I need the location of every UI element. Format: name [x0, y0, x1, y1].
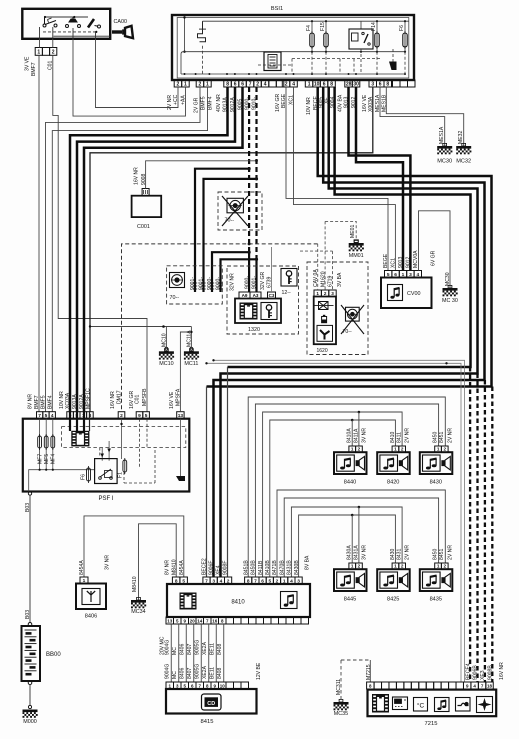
wire 9001 dashed BSI1 segment: [255, 87, 257, 259]
svg-text:1: 1: [37, 50, 40, 56]
wire CA00 pin2 stub: [52, 39, 54, 48]
svg-text:MC34: MC34: [131, 609, 145, 615]
wire +CC from CA00 to BSI1: [96, 39, 179, 108]
PSF1 inner dashed box: [62, 427, 186, 448]
CA00 contact S1: [43, 17, 57, 27]
wire 9000 dashed BSI1 through connector 70: [248, 87, 250, 252]
svg-text:1: 1: [308, 81, 311, 87]
wire 8450B loop: [255, 404, 438, 577]
svg-text:9001-: 9001-: [190, 277, 196, 290]
wires CAV M1620 6719 dashed into 1620: [317, 244, 319, 290]
svg-text:MF5: MF5: [44, 454, 50, 464]
svg-text:8V BA: 8V BA: [305, 555, 311, 570]
svg-text:8454A: 8454A: [179, 560, 185, 575]
svg-text:8440: 8440: [344, 480, 356, 486]
svg-text:16V GR: 16V GR: [275, 94, 281, 112]
svg-text:1: 1: [394, 564, 397, 569]
svg-text:3: 3: [331, 291, 334, 296]
svg-text:MF4: MF4: [51, 454, 57, 464]
wire 8430A branch: [351, 515, 353, 563]
PSF1 pin group 9 5 1 8: [67, 412, 93, 419]
PSF1 relay feed stubs: [102, 441, 109, 461]
svg-text:8406: 8406: [179, 668, 185, 679]
svg-text:8410: 8410: [390, 432, 396, 443]
svg-text:1: 1: [437, 447, 440, 452]
battery BB00: [28, 623, 32, 627]
ground MC35 and dashed link: [340, 660, 342, 702]
svg-text:1: 1: [351, 564, 354, 569]
1320 key icon box: [261, 303, 277, 320]
svg-text:7215: 7215: [425, 721, 438, 727]
ground MC32 top: [456, 143, 471, 154]
svg-text:5: 5: [145, 413, 148, 419]
wire MES1A to ground MC30: [380, 87, 445, 146]
svg-text:16: 16: [212, 618, 218, 623]
8410 note icon: [281, 592, 298, 609]
CA00 contact S3: [88, 19, 101, 28]
fuse F6: [404, 21, 406, 52]
7215 pin row: [367, 682, 494, 689]
svg-text:4: 4: [51, 413, 54, 419]
svg-text:2: 2: [285, 81, 288, 87]
svg-text:MF7: MF7: [38, 454, 44, 464]
PSF1 MPSFA wire and wedge: [179, 419, 181, 476]
PSF1 fuse F6: [87, 466, 91, 483]
svg-text:8420: 8420: [387, 480, 399, 486]
svg-text:6: 6: [241, 81, 244, 87]
svg-text:9012: 9012: [406, 257, 412, 268]
wire 9004 loop right side: [228, 87, 471, 367]
svg-text:3: 3: [371, 81, 374, 87]
svg-text:BB00: BB00: [46, 652, 61, 658]
wire 9000 solid to 1320 pin: [248, 252, 250, 292]
wire thin branch to 7215 a: [207, 363, 462, 682]
BSI1 inner border: [177, 18, 409, 79]
wire 9008 C001 to bundle: [146, 161, 257, 189]
svg-text:6: 6: [234, 81, 237, 87]
component 1320 dashed outline: [227, 266, 299, 334]
svg-text:BMF4: BMF4: [208, 96, 214, 110]
wire 6739 into 1320 C3: [271, 247, 273, 292]
wire 8411B loop: [263, 412, 403, 577]
svg-text:8410A: 8410A: [347, 428, 353, 443]
7215 compass star icon: [477, 697, 493, 713]
wire BECE loop right side: [207, 87, 492, 387]
svg-text:9012A: 9012A: [79, 394, 85, 409]
svg-text:ME01: ME01: [350, 225, 356, 238]
connector 70 wire end ticks: [193, 283, 223, 289]
svg-text:8430: 8430: [430, 480, 442, 486]
svg-text:8411: 8411: [397, 432, 403, 443]
speaker 8430 pins: [435, 446, 448, 452]
svg-text:1: 1: [184, 81, 187, 87]
svg-text:BSI1: BSI1: [271, 6, 283, 12]
CA00 internal supply bus: [44, 16, 88, 18]
wire branch 9001 upper to connector 70: [195, 169, 249, 292]
svg-text:BMF5: BMF5: [41, 395, 47, 409]
svg-text:1: 1: [394, 447, 397, 452]
svg-text:2: 2: [401, 564, 404, 569]
svg-text:8407: 8407: [187, 644, 193, 655]
svg-text:3V NR: 3V NR: [362, 428, 368, 443]
wire BMF4 BSI1 to PSF1: [52, 87, 207, 412]
svg-text:M7215: M7215: [366, 664, 372, 680]
PSF1 pin group 9 5: [136, 412, 149, 419]
svg-text:9006B: 9006B: [473, 665, 479, 680]
wire 8431A branch: [358, 507, 360, 563]
speaker 8430 box: [420, 452, 453, 474]
wire 9005 thick BSI1 to PSF1: [84, 87, 243, 412]
svg-text:M000: M000: [23, 719, 37, 725]
speaker 8435 box: [420, 569, 453, 591]
svg-text:CAV 0A: CAV 0A: [313, 269, 319, 287]
PSF1 pin group 7 5 4: [37, 412, 56, 419]
PSF1 connector symbol: [71, 431, 89, 447]
svg-text:F1: F1: [118, 472, 124, 478]
svg-text:1: 1: [437, 564, 440, 569]
svg-text:9000-: 9000-: [244, 276, 250, 289]
svg-text:MC11: MC11: [184, 361, 198, 367]
8410 bottom pin row: [166, 617, 309, 624]
relay inside BSI1: [360, 21, 362, 29]
7215 temperature icon: [414, 698, 428, 712]
wire XC1 to CV00: [294, 87, 396, 271]
svg-text:XC1: XC1: [391, 258, 397, 268]
svg-text:2V GR: 2V GR: [194, 97, 200, 113]
wires 8410 to 8415: [170, 624, 172, 682]
ground MC30 right: [443, 285, 458, 296]
svg-text:8: 8: [226, 81, 229, 87]
svg-text:M8410: M8410: [132, 576, 138, 592]
BSI1 pin row empty cells a: [269, 80, 284, 87]
svg-text:3V NR: 3V NR: [362, 545, 368, 560]
speaker 8435 pins: [435, 563, 448, 569]
8410 pin group 8 5: [172, 577, 187, 584]
svg-text:MC311: MC311: [336, 679, 342, 695]
fuse F14: [376, 21, 378, 52]
svg-text:2V NR: 2V NR: [405, 428, 411, 443]
svg-text:CV00: CV00: [407, 291, 421, 297]
svg-text:2: 2: [444, 564, 447, 569]
svg-text:CD: CD: [207, 701, 215, 707]
CA00 internal contact drops: [40, 27, 96, 39]
svg-text:9004G: 9004G: [164, 664, 170, 679]
svg-text:1: 1: [402, 272, 405, 278]
PSF1 relay: [95, 459, 118, 484]
wire +AA from CA00 to BSI1: [73, 39, 186, 116]
svg-text:BECE2: BECE2: [202, 558, 208, 575]
svg-text:PSF I: PSF I: [98, 496, 113, 502]
svg-text:16V NR: 16V NR: [499, 662, 505, 680]
component 1320 box: [235, 299, 281, 324]
PSF1 internal bus to relay: [29, 470, 95, 492]
svg-text:10V NR: 10V NR: [59, 391, 65, 409]
BSI1 pin row group 2V GR: [196, 80, 211, 87]
svg-text:8411B: 8411B: [258, 560, 264, 575]
BSI1 pin row group 10V NR: [305, 80, 335, 87]
svg-text:XE3: XE3: [480, 670, 486, 680]
fuse F4: [311, 21, 313, 52]
svg-text:B03: B03: [25, 610, 31, 619]
ignition switch CA00 box: [22, 9, 110, 39]
connector 70 crossed upper: [218, 192, 262, 230]
wire 9005 loop right side: [214, 87, 485, 577]
svg-text:70--: 70--: [225, 218, 235, 224]
svg-text:2: 2: [444, 447, 447, 452]
svg-text:XE4: XE4: [216, 565, 222, 575]
svg-text:8V NR: 8V NR: [28, 394, 34, 409]
svg-text:40V BA: 40V BA: [338, 94, 344, 112]
BSI1 circuit breaker zigzag: [198, 21, 206, 42]
wire 9008B dashed to 7215: [469, 367, 471, 682]
wire 8430 loop row2: [299, 515, 396, 577]
svg-text:C01: C01: [135, 394, 141, 404]
svg-text:9008: 9008: [141, 174, 147, 185]
wire 8431 loop row2: [291, 507, 402, 577]
svg-text:2V NR: 2V NR: [447, 545, 453, 560]
svg-text:9004G: 9004G: [164, 640, 170, 655]
fuse F15: [325, 21, 327, 52]
1320 chip icon: [240, 303, 258, 320]
svg-text:BMF7: BMF7: [31, 62, 37, 76]
svg-text:F15: F15: [320, 22, 326, 31]
svg-text:MES1A: MES1A: [439, 126, 445, 144]
svg-text:8450B: 8450B: [251, 560, 257, 575]
BSI1 internal ground wedge: [389, 62, 397, 71]
svg-text:6V GR: 6V GR: [431, 250, 437, 266]
svg-text:MPSF1C: MPSF1C: [85, 388, 91, 409]
svg-text:4: 4: [416, 272, 419, 278]
svg-text:12V BE: 12V BE: [256, 662, 262, 680]
CV00 pin row: [385, 271, 422, 278]
svg-text:M8410: M8410: [172, 559, 178, 575]
PSF1 fuse MF5: [45, 419, 47, 470]
svg-text:7: 7: [249, 81, 252, 87]
svg-text:8408: 8408: [217, 644, 223, 655]
svg-text:XC03A: XC03A: [65, 392, 71, 409]
svg-text:16V NR: 16V NR: [110, 391, 116, 409]
svg-text:8: 8: [386, 81, 389, 87]
PSF1 pin 2: [118, 412, 125, 419]
svg-text:XE2A: XE2A: [202, 665, 208, 679]
antenna 8406 box: [76, 584, 106, 610]
svg-text:BE11: BE11: [209, 643, 215, 655]
svg-text:7: 7: [38, 413, 41, 419]
svg-text:8425: 8425: [387, 597, 399, 603]
BSI1 internal dashed wiring: [258, 49, 405, 74]
svg-text:MC30: MC30: [437, 159, 452, 165]
svg-text:F6: F6: [399, 25, 405, 31]
PSF1 dashed internals: [100, 419, 155, 483]
svg-text:8470B: 8470B: [279, 560, 285, 575]
PSF1 fuse MF4: [52, 419, 54, 470]
svg-text:BMF7: BMF7: [34, 395, 40, 409]
svg-text:8: 8: [330, 81, 333, 87]
8410 chip icon: [180, 593, 197, 610]
wire BECE4 dashed to 7215: [491, 387, 493, 683]
7215 door mirror icon: [456, 698, 471, 712]
svg-text:6739: 6739: [267, 277, 273, 288]
svg-text:70--: 70--: [170, 295, 180, 301]
ground MC11: [184, 349, 199, 360]
wire branch 9000 upper to connector 70: [204, 179, 257, 292]
svg-text:MC32: MC32: [456, 159, 471, 165]
BSI1 pin row group 16V GR: [282, 80, 297, 87]
speaker 8425 box: [377, 569, 410, 591]
svg-text:M1620: M1620: [320, 271, 326, 287]
svg-text:2: 2: [358, 564, 361, 569]
svg-text:13: 13: [178, 413, 184, 419]
svg-text:C3: C3: [269, 293, 275, 298]
CA00 internal link to key: [54, 35, 111, 37]
svg-text:MC10: MC10: [159, 361, 173, 367]
svg-text:BEGE: BEGE: [383, 253, 389, 268]
svg-text:40V NR: 40V NR: [216, 94, 222, 112]
wire 8454A antenna to radio: [84, 516, 184, 577]
svg-text:5: 5: [45, 413, 48, 419]
svg-text:70--: 70--: [343, 329, 352, 335]
wire 9008F drop to radio: [227, 367, 229, 577]
svg-text:32V NR: 32V NR: [230, 273, 236, 291]
svg-text:28: 28: [346, 81, 352, 87]
BSI1 outer box: [172, 15, 414, 80]
ground MC30 top: [437, 143, 452, 154]
speaker 8440 pins: [349, 446, 362, 452]
1620 pin row 1 2 3: [314, 290, 336, 297]
svg-text:30: 30: [353, 81, 359, 87]
svg-text:C001: C001: [137, 224, 150, 230]
wire 9013A thick BSI1 to PSF1: [70, 87, 228, 412]
connector 70 crossed at 1620: [346, 307, 360, 321]
CD changer 8415 box: [166, 689, 257, 714]
ground M000: [23, 710, 38, 718]
svg-text:MC35: MC35: [334, 711, 348, 717]
svg-text:8430B: 8430B: [294, 560, 300, 575]
ground MC10: [159, 349, 174, 360]
svg-text:4: 4: [292, 81, 295, 87]
ground MM01 dashed feed: [325, 221, 356, 239]
svg-text:8407: 8407: [187, 668, 193, 679]
wire XE3 dashed to 7215: [476, 374, 478, 683]
wire battery to ground M000: [29, 685, 31, 706]
component CV00 box: [381, 278, 432, 309]
svg-text:DM17: DM17: [117, 390, 123, 404]
BSI1 internal feed drop: [184, 18, 186, 52]
1620 lamp icon: [315, 305, 334, 307]
svg-text:4: 4: [264, 81, 267, 87]
ground MM01: [349, 240, 364, 251]
BSI1 internal upper line: [203, 20, 409, 22]
svg-text:8445: 8445: [344, 597, 356, 603]
svg-text:10: 10: [314, 81, 320, 87]
svg-text:10: 10: [220, 683, 226, 688]
PSF1 thick pin stubs: [69, 412, 71, 431]
wire 8431B loop row2: [277, 490, 445, 577]
svg-text:9: 9: [138, 413, 141, 419]
wire X003A BSI1 to PSF1 pin8: [90, 87, 373, 412]
8410 pin group 8 7 6 5 2 1 4 3: [245, 577, 303, 584]
svg-text:9005G: 9005G: [194, 640, 200, 655]
svg-text:8V NR: 8V NR: [165, 560, 171, 575]
svg-text:8406: 8406: [179, 644, 185, 655]
svg-text:9001-: 9001-: [199, 277, 205, 290]
wire BEGE to CV00: [286, 87, 388, 271]
wire 8411A branch: [358, 412, 360, 446]
svg-text:9013: 9013: [398, 257, 404, 268]
svg-text:BMF4: BMF4: [48, 395, 54, 409]
wire 8410A branch: [351, 420, 353, 446]
svg-text:MPSFB: MPSFB: [142, 388, 148, 406]
svg-text:F6: F6: [81, 474, 87, 480]
speaker 8420 pins: [392, 446, 405, 452]
svg-text:14: 14: [197, 618, 203, 623]
svg-text:3: 3: [409, 272, 412, 278]
svg-text:2: 2: [120, 413, 123, 419]
component 1620 dashed outline: [307, 262, 368, 355]
svg-text:10V NR: 10V NR: [306, 97, 312, 115]
svg-text:8410B: 8410B: [265, 560, 271, 575]
key symbol 12 connector: [281, 269, 297, 287]
svg-text:2: 2: [256, 81, 259, 87]
svg-text:BMF5: BMF5: [201, 96, 207, 110]
svg-text:MC11A: MC11A: [187, 330, 193, 347]
svg-text:9000-: 9000-: [216, 277, 222, 290]
BSI1 diagnostic connector symbol: [264, 52, 281, 71]
CA00 connector pins 1 2: [35, 48, 57, 56]
svg-text:CA00: CA00: [114, 19, 128, 25]
svg-text:8450: 8450: [433, 549, 439, 560]
svg-text:MC: MC: [172, 671, 178, 679]
svg-text:9013A: 9013A: [72, 394, 78, 409]
PSF1 fuse MF7: [39, 419, 41, 470]
CD icon: [202, 694, 222, 710]
svg-text:6719: 6719: [328, 276, 334, 287]
wire MES1B to ground MC32: [386, 87, 463, 146]
svg-text:MM01: MM01: [349, 253, 364, 259]
svg-text:8411A: 8411A: [353, 428, 359, 443]
svg-text:1320: 1320: [248, 327, 260, 333]
svg-text:2: 2: [199, 81, 202, 87]
wire M8410 radio to ground MC34: [139, 524, 177, 600]
svg-text:8451: 8451: [439, 549, 445, 560]
BSI1 pin row empty cells b: [393, 80, 416, 87]
svg-text:8430: 8430: [390, 549, 396, 560]
wire thin branch to 7215 b: [214, 360, 465, 682]
1320 pin C3: [268, 292, 276, 299]
svg-text:F14: F14: [371, 22, 377, 31]
1620 battery icon: [322, 315, 327, 323]
wire BECE2 drop to radio: [206, 387, 208, 578]
svg-text:8451: 8451: [439, 432, 445, 443]
svg-text:MC: MC: [172, 647, 178, 655]
BSI1 pin row group 40V NR: [224, 80, 269, 87]
speaker 8445 pins: [349, 563, 362, 569]
wire C01 from CA00 pin2: [53, 55, 147, 411]
svg-text:MC30: MC30: [445, 272, 451, 286]
PSF1 803 terminal: [28, 492, 31, 495]
svg-text:9000-: 9000-: [207, 277, 213, 290]
svg-text:2: 2: [358, 447, 361, 452]
radio 8410 box: [167, 584, 310, 617]
svg-text:12--: 12--: [282, 290, 291, 296]
svg-text:2V NR: 2V NR: [447, 428, 453, 443]
svg-text:8450: 8450: [433, 432, 439, 443]
wire 9006B dashed to 7215: [484, 380, 486, 682]
8410 pin group 7 3 4 2: [203, 577, 232, 584]
svg-text:MC 30: MC 30: [442, 298, 458, 304]
key symbol at CA00: [112, 26, 133, 38]
component C001 box: [132, 196, 162, 217]
